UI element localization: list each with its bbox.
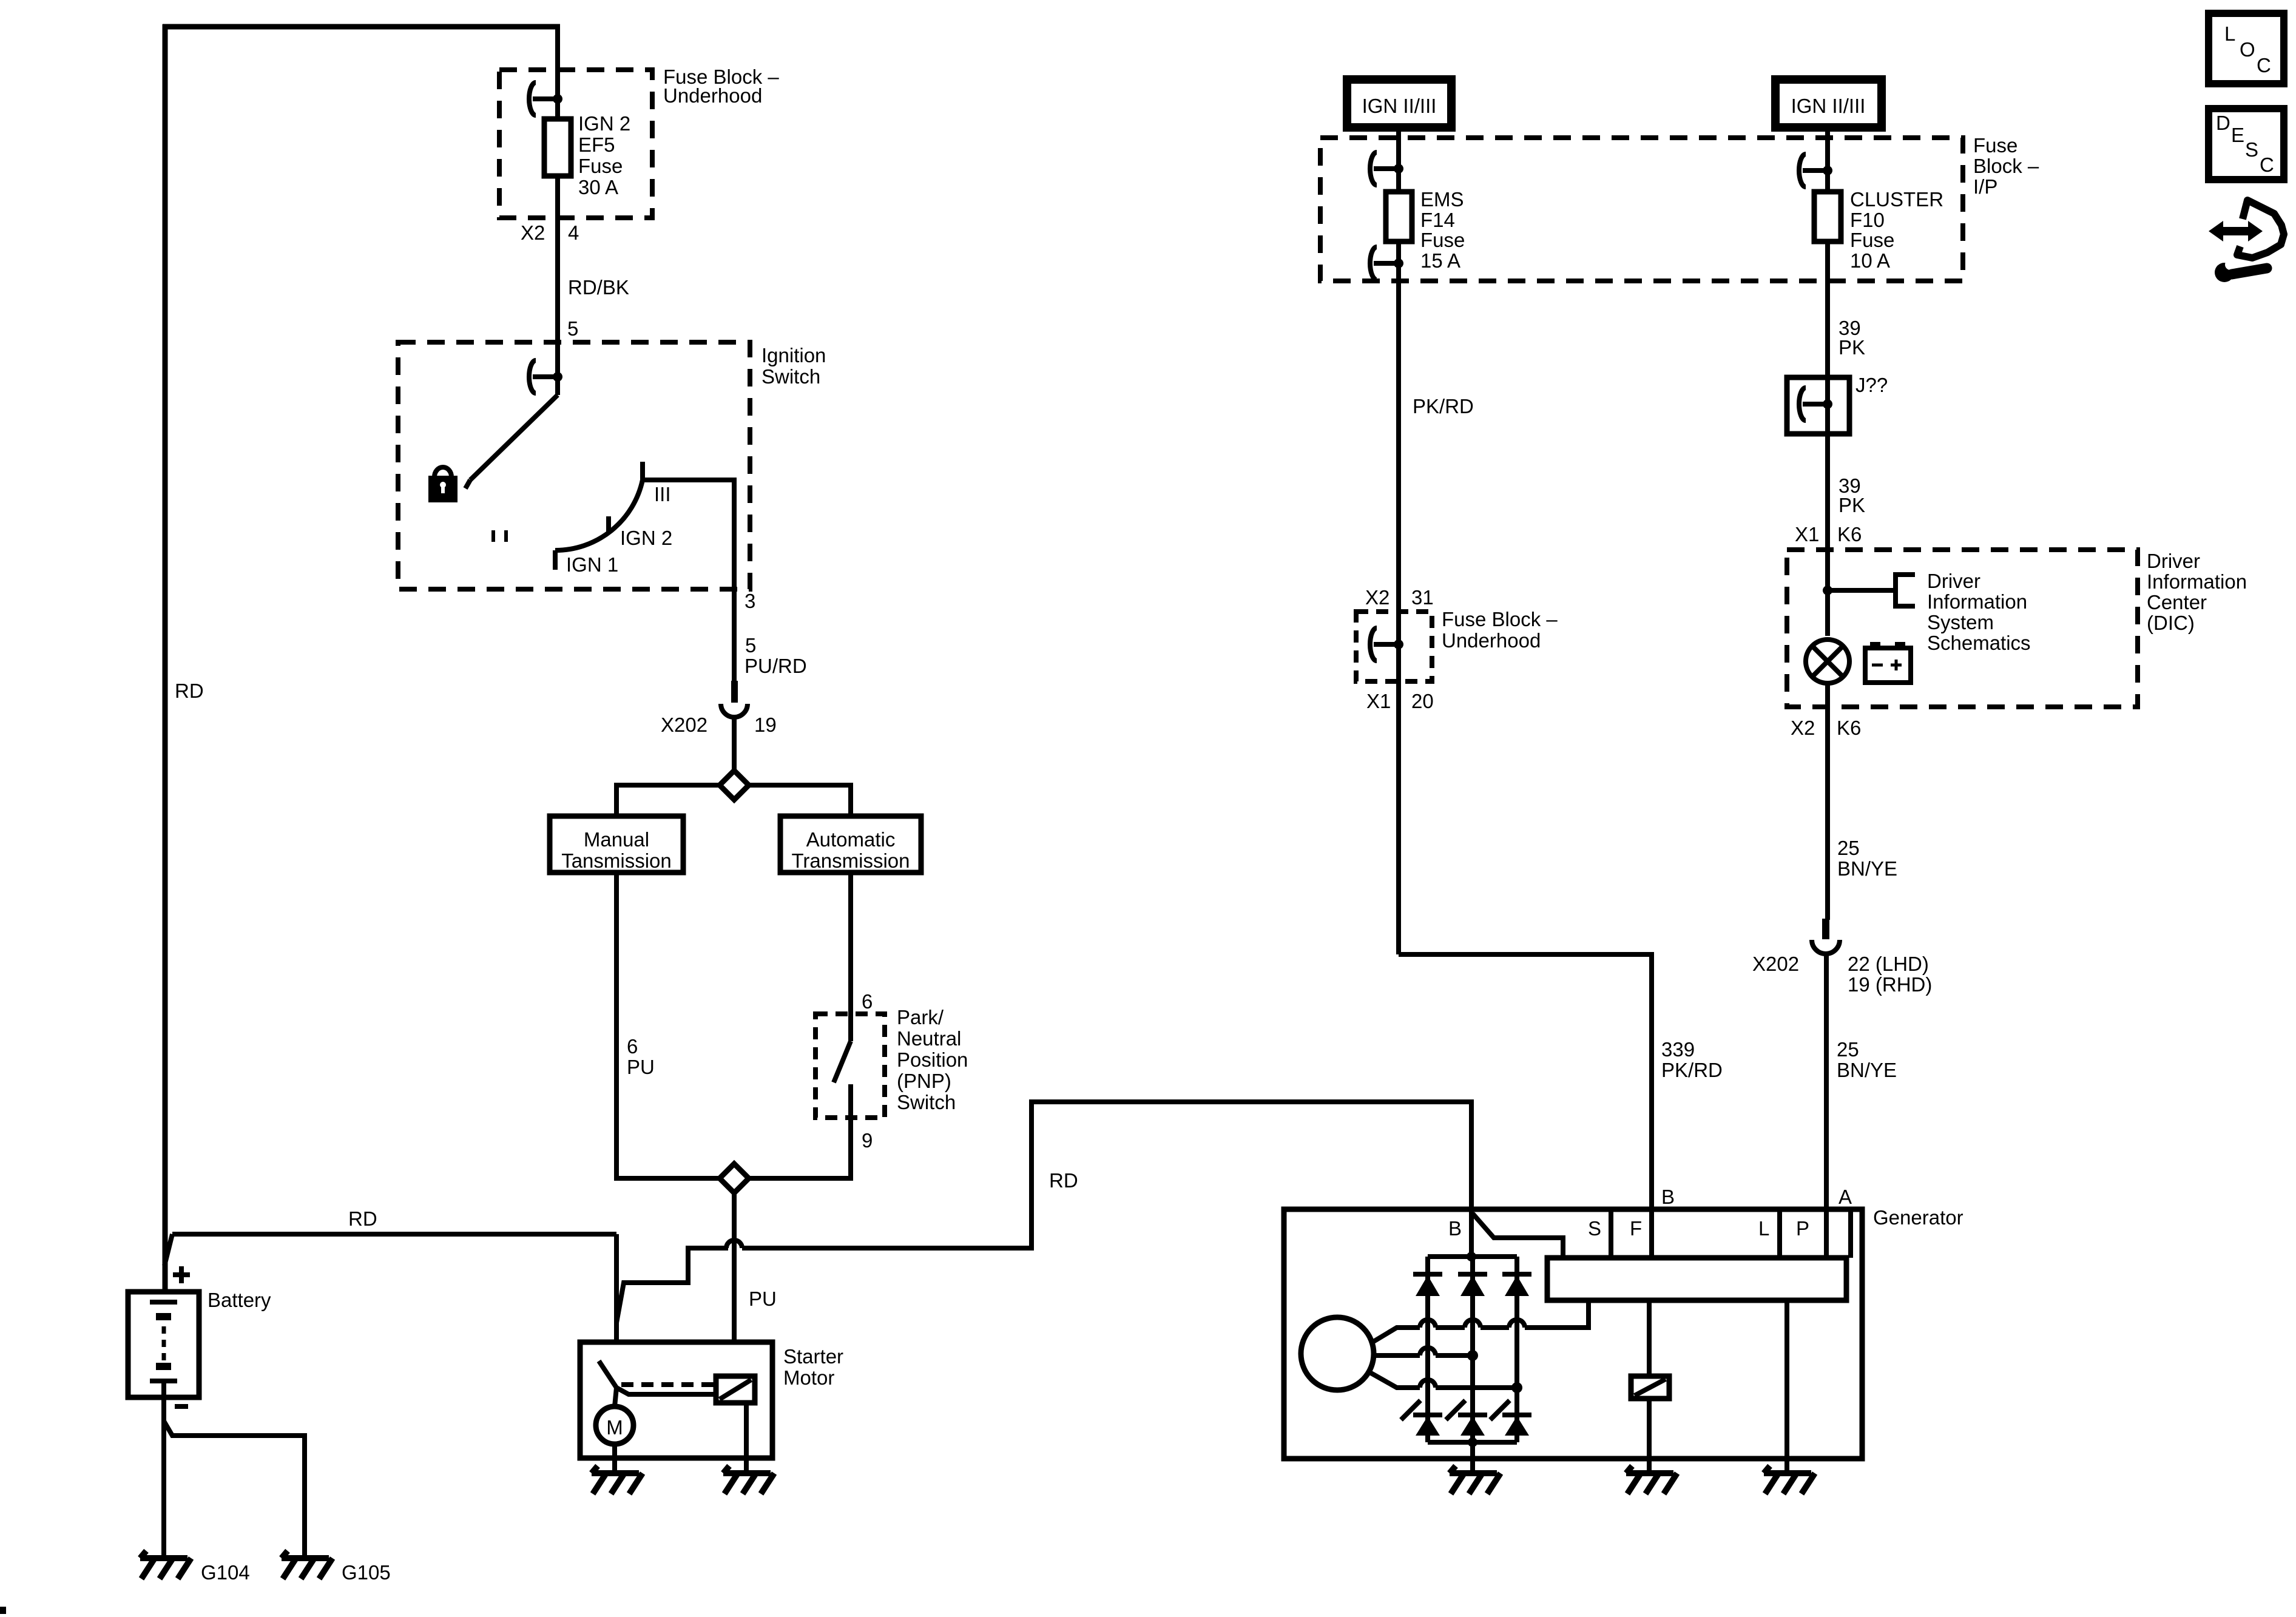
diode D3 <box>1502 1272 1531 1277</box>
DESC icon <box>2209 109 2284 180</box>
connector terminal EMS top <box>1370 152 1377 185</box>
svg-text:RD: RD <box>1049 1169 1078 1192</box>
rectifier bottom rail <box>1428 1440 1517 1445</box>
wire fuse to ignition switch RD/BK <box>555 176 560 395</box>
fuse IGN 2 EF5 30A <box>544 119 571 176</box>
switch lever <box>470 395 558 480</box>
splice diamond upper <box>720 771 749 800</box>
svg-text:Center: Center <box>2147 591 2207 613</box>
wire PNP to splice <box>749 1084 851 1178</box>
ignition switch dashed box <box>398 342 750 589</box>
svg-text:IGN II/III: IGN II/III <box>1791 95 1866 117</box>
svg-text:IGN 1: IGN 1 <box>566 553 618 576</box>
svg-text:6: 6 <box>627 1035 638 1058</box>
svg-text:E: E <box>2231 124 2244 146</box>
svg-text:Ignition: Ignition <box>761 344 826 366</box>
svg-text:B: B <box>1661 1186 1675 1208</box>
terminal slot separators <box>1609 1209 1613 1258</box>
wire automatic branch pin 6 <box>848 873 853 1041</box>
wire RD to generator with hop <box>616 1248 728 1323</box>
wire battery feed left vertical RD <box>163 24 168 1303</box>
splice diamond lower <box>720 1164 749 1193</box>
wire manual branch 6 PU <box>616 873 720 1178</box>
ground G105 <box>282 1551 333 1579</box>
connector terminal EMS bottom <box>1370 247 1377 280</box>
field relay coil <box>1631 1376 1669 1399</box>
svg-text:F10: F10 <box>1850 209 1885 231</box>
battery plus <box>173 1272 190 1277</box>
wire into fuse <box>555 27 560 119</box>
svg-text:G105: G105 <box>342 1561 391 1584</box>
svg-text:PU: PU <box>749 1288 777 1310</box>
svg-text:Automatic: Automatic <box>806 828 896 851</box>
battery telltale icon <box>1865 648 1911 683</box>
svg-text:C: C <box>2260 154 2274 176</box>
starter contact wire <box>616 1388 724 1403</box>
service icon arrow <box>2221 227 2251 235</box>
svg-text:PK: PK <box>1838 494 1865 516</box>
indicator lamp <box>1806 640 1849 683</box>
svg-text:31: 31 <box>1411 586 1434 609</box>
svg-text:Fuse: Fuse <box>578 155 623 177</box>
wire label 39 PK <box>1825 241 1830 377</box>
svg-text:(DIC): (DIC) <box>2147 612 2195 634</box>
wire solenoid to ground <box>744 1403 749 1473</box>
node junction in DIC <box>1823 586 1832 595</box>
voltage regulator <box>1547 1258 1846 1300</box>
svg-text:Switch: Switch <box>761 365 820 388</box>
tick IGN 1 <box>553 550 558 570</box>
svg-text:6: 6 <box>862 990 873 1013</box>
field relay wire <box>1647 1300 1652 1376</box>
ground generator relay <box>1626 1466 1677 1494</box>
diode D1 <box>1413 1272 1442 1277</box>
svg-text:19 (RHD): 19 (RHD) <box>1848 973 1932 996</box>
svg-text:CLUSTER: CLUSTER <box>1850 188 1943 211</box>
wire 39 PK to DIC <box>1825 377 1830 636</box>
svg-text:5: 5 <box>567 317 578 340</box>
svg-text:4: 4 <box>568 221 579 244</box>
svg-text:22 (LHD): 22 (LHD) <box>1848 953 1929 975</box>
IGN II/III tag left <box>1347 79 1451 127</box>
svg-text:C: C <box>2257 54 2271 76</box>
battery plates <box>150 1300 177 1305</box>
diode D2 <box>1458 1272 1487 1277</box>
battery <box>128 1292 199 1397</box>
service icon outline <box>2237 200 2284 258</box>
svg-text:Generator: Generator <box>1873 1206 1963 1229</box>
svg-text:Motor: Motor <box>783 1366 834 1389</box>
svg-text:S: S <box>1588 1217 1601 1240</box>
svg-text:RD: RD <box>348 1207 377 1230</box>
ground starter left <box>592 1466 643 1494</box>
wire branch to Automatic Transmission <box>749 785 851 816</box>
battery minus <box>175 1404 188 1409</box>
PNP switch dashed box <box>815 1014 885 1118</box>
stator winding middle <box>1374 1353 1420 1358</box>
svg-text:III: III <box>654 483 671 505</box>
svg-text:X202: X202 <box>661 714 707 736</box>
wire 339 PK/RD to generator <box>1399 954 1652 1216</box>
svg-text:RD/BK: RD/BK <box>568 276 629 299</box>
svg-text:(PNP): (PNP) <box>897 1070 951 1092</box>
svg-text:Position: Position <box>897 1048 968 1071</box>
svg-text:Schematics: Schematics <box>1927 632 2031 654</box>
svg-text:X2: X2 <box>1791 717 1815 739</box>
svg-text:25: 25 <box>1837 837 1860 859</box>
svg-text:PK/RD: PK/RD <box>1413 395 1474 417</box>
bracket reference symbol <box>1896 575 1915 606</box>
svg-text:Underhood: Underhood <box>663 84 762 107</box>
svg-text:EMS: EMS <box>1420 188 1464 211</box>
ground generator L <box>1764 1466 1815 1494</box>
wire A to regulator <box>1824 1209 1829 1258</box>
svg-text:F: F <box>1630 1217 1642 1240</box>
wire to splice <box>732 717 737 772</box>
svg-text:RD: RD <box>175 680 204 702</box>
ground generator rectifier <box>1450 1466 1501 1494</box>
svg-text:B: B <box>1448 1217 1462 1240</box>
LOC icon <box>2209 13 2284 84</box>
fuse block underhood pass-through dashed box <box>1356 612 1432 681</box>
starter switch blade <box>599 1361 616 1388</box>
svg-text:F14: F14 <box>1420 209 1455 231</box>
wire B sense to regulator <box>1473 1214 1563 1258</box>
wire ignition output <box>643 480 734 681</box>
svg-text:Fuse: Fuse <box>1973 134 2017 157</box>
svg-text:X1: X1 <box>1795 523 1819 545</box>
svg-text:Fuse Block –: Fuse Block – <box>1442 608 1558 630</box>
svg-text:Driver: Driver <box>2147 550 2200 572</box>
svg-text:Underhood: Underhood <box>1442 629 1541 652</box>
svg-text:System: System <box>1927 611 1994 633</box>
svg-text:IGN 2: IGN 2 <box>578 112 630 135</box>
wire lamp down <box>1825 683 1830 920</box>
ground starter right <box>723 1466 774 1494</box>
wire RD battery to starter <box>172 1232 616 1237</box>
wire battery to grounds <box>161 1381 166 1558</box>
svg-text:X2: X2 <box>521 221 545 244</box>
svg-text:L: L <box>1758 1217 1769 1240</box>
wire branch to Manual Transmission <box>616 785 720 816</box>
svg-text:Block –: Block – <box>1973 155 2039 177</box>
svg-text:G104: G104 <box>201 1561 250 1584</box>
svg-text:K6: K6 <box>1837 523 1862 545</box>
connector terminal inside ignition switch <box>529 360 536 393</box>
svg-text:PU/RD: PU/RD <box>745 655 807 677</box>
fuse block I/P dashed box <box>1320 138 1963 281</box>
wire top feed horizontal <box>163 24 560 30</box>
svg-text:X202: X202 <box>1752 953 1799 975</box>
wire rectifier to ground <box>1470 1442 1475 1473</box>
svg-text:D: D <box>2216 112 2230 134</box>
fuse EMS F14 15A <box>1386 192 1412 241</box>
svg-text:J??: J?? <box>1855 374 1888 396</box>
wire EMS branch <box>1396 138 1401 192</box>
svg-text:Park/: Park/ <box>897 1006 944 1028</box>
svg-text:20: 20 <box>1411 690 1434 712</box>
svg-text:9: 9 <box>862 1129 873 1152</box>
svg-text:K6: K6 <box>1837 717 1861 739</box>
svg-text:Starter: Starter <box>783 1345 843 1368</box>
wire EMS down PK/RD <box>1396 241 1401 954</box>
position marks I I <box>491 530 495 542</box>
lock symbol <box>434 467 451 477</box>
svg-text:Battery: Battery <box>208 1289 271 1311</box>
svg-text:BN/YE: BN/YE <box>1837 857 1897 880</box>
svg-text:Driver: Driver <box>1927 570 1980 592</box>
rotor <box>1301 1317 1374 1390</box>
IGN II/III tag right <box>1775 79 1882 127</box>
junction box J?? <box>1787 377 1849 434</box>
wire relay to ground <box>1647 1399 1652 1473</box>
svg-text:X2: X2 <box>1365 586 1389 609</box>
svg-text:O: O <box>2240 38 2255 61</box>
svg-text:PK/RD: PK/RD <box>1661 1059 1723 1081</box>
connector X202 pin 22/19 <box>1822 919 1829 939</box>
svg-text:EF5: EF5 <box>578 133 615 156</box>
box Manual Tansmission <box>550 816 683 873</box>
zener Z3 <box>1490 1400 1510 1420</box>
svg-text:Fuse: Fuse <box>1850 229 1894 251</box>
svg-text:BN/YE: BN/YE <box>1837 1059 1897 1081</box>
generator box <box>1284 1209 1862 1459</box>
svg-text:Fuse: Fuse <box>1420 229 1465 251</box>
svg-text:PU: PU <box>627 1056 655 1078</box>
svg-text:PK: PK <box>1838 336 1865 359</box>
stator winding bottom <box>1369 1372 1420 1388</box>
wire PU to starter solenoid <box>732 1193 737 1376</box>
wire motor to ground <box>612 1444 617 1473</box>
rectifier top rail <box>1428 1254 1517 1259</box>
svg-text:Information: Information <box>2147 570 2247 593</box>
svg-text:5: 5 <box>745 634 756 657</box>
svg-text:10 A: 10 A <box>1850 249 1890 272</box>
svg-text:15 A: 15 A <box>1420 249 1460 272</box>
svg-text:Switch: Switch <box>897 1091 956 1113</box>
svg-text:A: A <box>1838 1186 1852 1208</box>
DIC dashed box <box>1787 550 2138 707</box>
wire B to rectifier rail <box>1469 1209 1474 1257</box>
svg-text:Information: Information <box>1927 590 2027 613</box>
ground G104 <box>140 1551 191 1579</box>
tick IGN 2 <box>606 516 611 533</box>
fuse CLUSTER F10 10A <box>1814 192 1841 241</box>
connector terminal inside <box>1370 628 1377 661</box>
zener Z1 <box>1401 1400 1420 1420</box>
svg-text:P: P <box>1796 1217 1809 1240</box>
svg-text:25: 25 <box>1837 1038 1859 1061</box>
diode legs <box>1425 1257 1430 1442</box>
svg-text:30 A: 30 A <box>578 176 618 198</box>
wire L to ground <box>1784 1300 1789 1473</box>
starter solenoid coil <box>716 1376 755 1403</box>
connector X202 pin 19 <box>731 681 738 703</box>
svg-text:19: 19 <box>754 714 777 736</box>
starter linkage dashed <box>621 1382 715 1387</box>
service icon wrench <box>2215 263 2234 282</box>
PNP switch blade <box>834 1041 851 1082</box>
wire to generator A <box>1824 953 1829 1216</box>
starter motor M <box>596 1406 633 1444</box>
svg-text:Manual: Manual <box>584 828 649 851</box>
svg-text:S: S <box>2245 138 2258 161</box>
svg-text:M: M <box>606 1416 623 1439</box>
wire F to regulator <box>1649 1209 1654 1258</box>
starter motor box <box>580 1342 772 1458</box>
zener Z2 <box>1446 1400 1465 1420</box>
svg-text:Tansmission: Tansmission <box>561 849 672 872</box>
svg-text:IGN II/III: IGN II/III <box>1362 95 1437 117</box>
artifact dot bottom left <box>0 1607 6 1614</box>
svg-text:339: 339 <box>1661 1038 1695 1061</box>
connector terminal at fuse top <box>529 83 536 115</box>
rotary contact arc <box>555 480 643 550</box>
wire CLUSTER branch <box>1825 138 1830 192</box>
svg-text:Neutral: Neutral <box>897 1027 961 1050</box>
connector terminal CLUSTER top <box>1799 154 1806 187</box>
svg-text:IGN 2: IGN 2 <box>620 527 672 549</box>
tick III <box>640 462 645 480</box>
svg-text:L: L <box>2224 22 2235 45</box>
fuse block underhood dashed box <box>499 70 652 218</box>
svg-text:X1: X1 <box>1366 690 1391 712</box>
box Automatic Transmission <box>780 816 921 873</box>
svg-text:3: 3 <box>745 590 755 612</box>
svg-text:I/P: I/P <box>1973 175 1997 198</box>
stator winding top <box>1373 1328 1420 1342</box>
svg-text:Transmission: Transmission <box>792 849 910 872</box>
